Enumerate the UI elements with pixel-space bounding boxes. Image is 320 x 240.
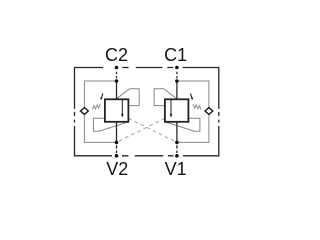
node C2 on boundary — [115, 66, 119, 70]
node C2 inner junction — [115, 79, 119, 83]
check valve diamond left — [81, 108, 89, 115]
node V1 inner junction — [175, 141, 179, 145]
manifold boundary right edge (dash-dot) — [218, 67, 220, 157]
check valve diamond right — [205, 108, 213, 115]
pilot loop upper right (gray) — [154, 89, 177, 106]
counterbalance valve box left — [105, 99, 128, 122]
flow arrow inside right valve — [170, 99, 173, 117]
bypass check line right (gray loop with check valve) — [177, 81, 209, 142]
svg-text:V1: V1 — [165, 159, 187, 179]
svg-text:C2: C2 — [105, 45, 128, 65]
node V2 on boundary — [115, 154, 119, 158]
pilot line lower right (gray U with diagonal) — [165, 118, 200, 131]
port line C1 to valve — [176, 81, 178, 99]
port line C1 dashed stub — [176, 72, 178, 79]
manifold boundary left edge (dash-dot) — [74, 67, 76, 157]
spring left (adjustable) — [92, 104, 100, 110]
port line V2 dashed stub — [116, 145, 118, 153]
svg-text:C1: C1 — [164, 45, 187, 65]
pilot loop upper left (gray) — [117, 89, 140, 106]
node C1 inner junction — [175, 79, 179, 83]
manifold boundary bottom edge (dash-dot) — [75, 155, 219, 157]
bypass check line left (gray loop with check valve) — [84, 81, 116, 142]
port line valve to V2 — [116, 122, 118, 143]
adjustment arrow left — [100, 94, 103, 101]
spring right (adjustable) — [193, 104, 201, 110]
cross pilot dashed line A (left valve to V1) — [128, 118, 177, 142]
node V1 on boundary — [175, 154, 179, 158]
node C1 on boundary — [175, 66, 179, 70]
adjustment arrow right — [191, 94, 194, 101]
cross pilot dashed line B (right valve to V2) — [117, 118, 165, 142]
manifold boundary top edge (dash-dot) — [75, 67, 219, 69]
flow arrow inside left valve — [121, 99, 124, 117]
svg-text:V2: V2 — [106, 159, 128, 179]
port line valve to V1 — [176, 122, 178, 143]
pilot line lower left (gray U with diagonal) — [93, 118, 128, 131]
port line V1 dashed stub — [176, 145, 178, 153]
node V2 inner junction — [115, 141, 119, 145]
counterbalance valve box right — [165, 99, 189, 122]
port line C2 to valve — [116, 81, 118, 99]
port line C2 dashed stub — [116, 72, 118, 79]
